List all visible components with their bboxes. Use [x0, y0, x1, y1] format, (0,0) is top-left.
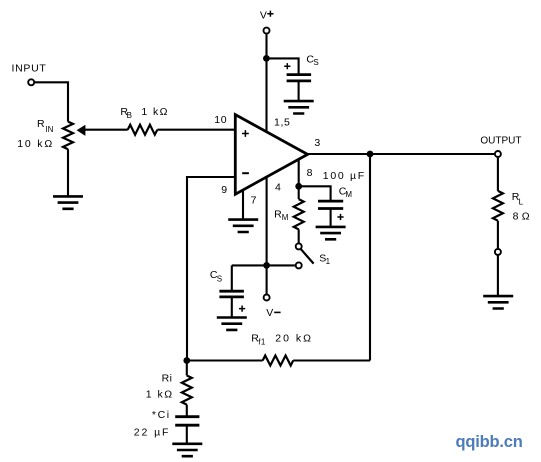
svg-text:V: V — [260, 9, 267, 21]
svg-text:L: L — [519, 197, 524, 206]
svg-text:qqibb.cn: qqibb.cn — [456, 433, 523, 451]
svg-text:INPUT: INPUT — [12, 62, 47, 74]
svg-text:10: 10 — [214, 114, 227, 126]
svg-text:Ri: Ri — [162, 373, 173, 385]
svg-text:f1: f1 — [258, 338, 266, 347]
svg-text:22 µF: 22 µF — [134, 427, 171, 439]
svg-text:1,5: 1,5 — [274, 117, 290, 129]
svg-text:R: R — [37, 118, 45, 130]
svg-text:3: 3 — [314, 137, 320, 149]
svg-text:100 µF: 100 µF — [323, 170, 366, 182]
svg-text:1 kΩ: 1 kΩ — [141, 106, 168, 118]
svg-text:8 Ω: 8 Ω — [513, 211, 530, 223]
svg-text:S: S — [217, 275, 222, 284]
svg-text:1: 1 — [326, 257, 331, 266]
svg-text:10 kΩ: 10 kΩ — [17, 138, 54, 150]
svg-text:1 kΩ: 1 kΩ — [146, 388, 174, 400]
svg-text:IN: IN — [45, 125, 53, 134]
svg-text:9: 9 — [221, 184, 227, 196]
svg-text:7: 7 — [251, 194, 257, 206]
svg-text:M: M — [282, 213, 289, 222]
svg-text:20 kΩ: 20 kΩ — [275, 332, 313, 344]
svg-text:B: B — [127, 111, 132, 120]
svg-text:4: 4 — [275, 181, 281, 193]
svg-text:8: 8 — [307, 167, 313, 179]
svg-text:*Ci: *Ci — [152, 409, 171, 421]
svg-text:S: S — [313, 58, 318, 67]
svg-text:OUTPUT: OUTPUT — [480, 135, 521, 146]
svg-text:M: M — [345, 190, 352, 199]
svg-text:V: V — [266, 307, 273, 319]
